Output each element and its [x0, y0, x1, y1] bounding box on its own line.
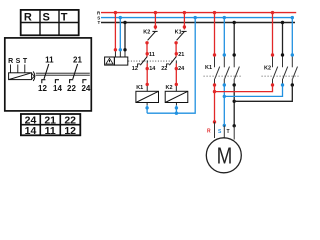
svg-text:22: 22	[161, 66, 167, 72]
svg-text:11: 11	[45, 56, 54, 65]
svg-text:12: 12	[38, 84, 47, 93]
svg-text:11: 11	[149, 52, 155, 58]
svg-text:14: 14	[53, 84, 62, 93]
svg-text:R: R	[24, 12, 32, 24]
svg-text:12: 12	[64, 125, 76, 137]
svg-text:T: T	[61, 12, 68, 24]
svg-text:K2: K2	[143, 30, 150, 36]
svg-text:K2: K2	[166, 85, 173, 91]
svg-text:11: 11	[45, 125, 56, 137]
svg-text:T: T	[227, 129, 230, 135]
svg-text:K1: K1	[205, 65, 212, 71]
svg-text:K1: K1	[175, 30, 182, 36]
svg-text:14: 14	[25, 125, 37, 137]
svg-text:R: R	[8, 58, 13, 65]
svg-text:S: S	[16, 58, 21, 65]
svg-text:M: M	[217, 144, 233, 169]
svg-text:12: 12	[132, 66, 138, 72]
svg-text:21: 21	[73, 56, 82, 65]
svg-text:24: 24	[178, 66, 185, 72]
svg-text:R: R	[207, 128, 211, 134]
svg-text:S: S	[43, 12, 50, 24]
svg-text:K1: K1	[136, 85, 143, 91]
svg-text:24: 24	[81, 84, 90, 93]
svg-text:22: 22	[67, 84, 76, 93]
svg-text:14: 14	[149, 66, 156, 72]
svg-text:K2: K2	[264, 66, 271, 72]
svg-text:T: T	[23, 58, 28, 65]
svg-text:T: T	[98, 20, 101, 25]
svg-text:21: 21	[178, 52, 184, 58]
